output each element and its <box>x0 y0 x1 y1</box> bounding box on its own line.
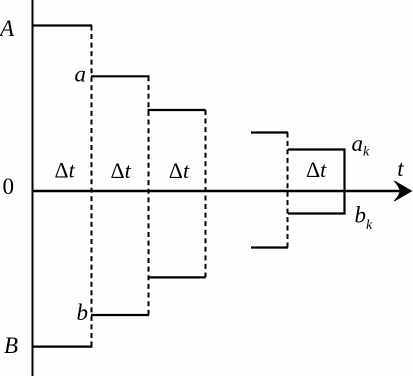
step B <box>32 346 92 348</box>
top fragment step <box>251 131 288 133</box>
vertical axis <box>32 0 34 376</box>
dashed vertical 2 <box>148 76 150 315</box>
svg-text:B: B <box>4 333 18 358</box>
svg-text:Δt: Δt <box>169 158 190 183</box>
step A <box>32 24 93 26</box>
dashed vertical 3 <box>205 110 207 277</box>
svg-text:A: A <box>0 16 15 41</box>
svg-text:t: t <box>397 156 404 181</box>
dashed vertical 4 <box>287 133 289 248</box>
svg-text:Δt: Δt <box>306 157 327 182</box>
bottom fragment step <box>251 246 288 248</box>
svg-text:a: a <box>75 61 87 86</box>
svg-text:bk: bk <box>355 203 374 233</box>
step 3 bottom <box>148 276 206 278</box>
svg-text:b: b <box>77 300 89 325</box>
step a <box>91 75 150 77</box>
dashed vertical 1 <box>91 26 93 347</box>
step b <box>91 314 149 316</box>
step 3 top <box>148 109 206 111</box>
svg-text:ak: ak <box>352 131 371 160</box>
svg-text:0: 0 <box>3 174 15 199</box>
a_k b_k box <box>288 150 345 214</box>
horizontal axis t <box>32 190 404 192</box>
axis arrowhead <box>394 181 411 201</box>
svg-text:Δt: Δt <box>111 158 132 183</box>
svg-text:Δt: Δt <box>55 158 76 183</box>
